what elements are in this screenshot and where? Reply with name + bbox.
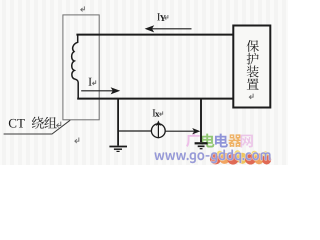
paragraph mark (in box)	[249, 94, 253, 99]
watermark url www.go-gddq.com	[154, 152, 164, 160]
wire: bus to ground (left)	[117, 99, 119, 146]
ground symbol (left)	[109, 147, 127, 152]
callout leader line	[4, 120, 71, 134]
label 保护装置 (protection device)	[247, 40, 259, 52]
wire: coil top to protection device	[76, 34, 233, 36]
wire with arrow: current source to right ground node	[165, 130, 194, 132]
watermark graphic (flames)	[210, 150, 271, 164]
label CT 绕组 (CT winding)	[9, 119, 16, 128]
ground symbol (right)	[195, 143, 208, 148]
paragraph mark (bottom)	[75, 138, 79, 144]
current arrow IY	[151, 28, 192, 30]
current source IX (circle)	[151, 124, 165, 138]
current arrow I	[81, 90, 113, 92]
protection device box U1	[233, 26, 270, 108]
current label I	[89, 78, 92, 86]
watermark 广电电器网	[186, 133, 200, 147]
current label IY	[157, 13, 160, 20]
inductor coil (CT secondary winding)	[72, 35, 79, 99]
wire: bus to ground (right)	[200, 99, 202, 143]
wire: bottom bus to protection device	[77, 98, 233, 100]
current source arrow	[157, 123, 159, 138]
paragraph mark (top)	[81, 6, 85, 11]
CT winding boundary box	[63, 15, 99, 120]
current label IX	[152, 109, 155, 116]
wire: ground wire to current source	[118, 130, 151, 132]
